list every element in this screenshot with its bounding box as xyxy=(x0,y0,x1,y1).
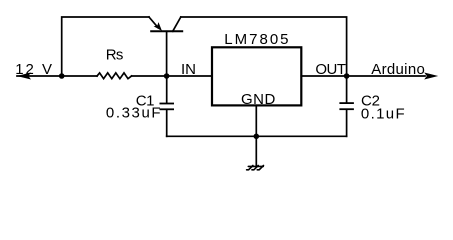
svg-text:IN: IN xyxy=(181,61,196,78)
svg-text:GND: GND xyxy=(241,91,276,108)
wire: GND pin of regulator xyxy=(255,105,257,136)
svg-text:OUT: OUT xyxy=(315,61,346,78)
transistor Q1 base wire xyxy=(166,31,168,76)
transistor Q1 collector diagonal xyxy=(173,17,181,31)
capacitor C2 top lead xyxy=(346,76,348,102)
node: ground rail junction dot xyxy=(253,134,259,140)
resistor Rs xyxy=(97,73,132,79)
node: IN junction dot xyxy=(164,73,170,79)
capacitor C2 bottom lead xyxy=(346,110,348,136)
capacitor C1 plates xyxy=(160,104,175,110)
wire: 12V rail left segment xyxy=(17,75,97,77)
svg-text:0.33uF: 0.33uF xyxy=(106,105,162,122)
svg-text:LM7805: LM7805 xyxy=(224,31,290,48)
capacitor C1 bottom lead xyxy=(166,110,168,136)
svg-text:Arduino: Arduino xyxy=(371,61,425,78)
arrow: Arduino output arrowhead xyxy=(424,73,438,80)
capacitor C1 top lead xyxy=(166,76,168,103)
ground symbol xyxy=(247,166,264,170)
transistor Q1 bar xyxy=(150,30,183,32)
node: OUT junction dot xyxy=(344,73,350,79)
transistor Q1 emitter diagonal xyxy=(149,17,158,28)
wire: rail from resistor to regulator IN pin xyxy=(132,75,212,77)
node: 12V junction dot xyxy=(59,73,65,79)
wire: bottom ground rail xyxy=(167,135,347,137)
svg-text:12 V: 12 V xyxy=(15,61,54,78)
wire: top wire collector to OUT node xyxy=(181,17,347,76)
arrow: 12V input arrowhead xyxy=(17,73,31,80)
transistor Q1 emitter arrowhead xyxy=(154,22,162,31)
wire: riser from 12V rail to top wire xyxy=(62,17,149,76)
wire: OUT rail to arrow xyxy=(301,75,425,77)
svg-text:Rs: Rs xyxy=(106,47,123,64)
capacitor C2 plates xyxy=(339,103,354,109)
LM7805 regulator box U1 xyxy=(212,47,301,105)
svg-text:0.1uF: 0.1uF xyxy=(361,105,406,122)
wire: ground stub xyxy=(255,136,257,166)
